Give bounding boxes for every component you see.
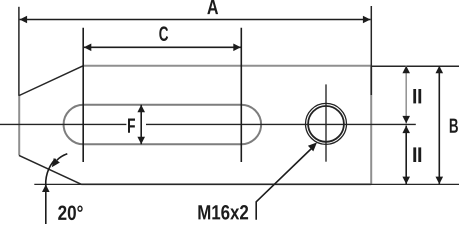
label II lower [413, 147, 416, 162]
arrowhead II lower top [402, 126, 410, 134]
angle dimension arc [46, 159, 56, 190]
dimension line 20 degree vertical arrow shaft [45, 184, 47, 224]
extension line C left [82, 28, 84, 162]
arrowhead F top [137, 105, 145, 113]
dimension line F [140, 105, 142, 144]
arrowhead II upper bottom [402, 116, 410, 124]
extension line bottom for B, II and 20 degrees [34, 183, 459, 185]
extension line A left [18, 7, 20, 96]
horizontal centerline left segment [0, 123, 126, 125]
horizontal centerline right segment [146, 123, 416, 125]
arrowhead 20 degree curved leader [52, 158, 60, 167]
arrowhead A left [20, 16, 28, 24]
dimension line II lower [405, 126, 407, 185]
label M16x2 [198, 205, 248, 220]
arrowhead C left [84, 44, 92, 52]
part outline: top edge (grey) [83, 65, 371, 67]
dimension line A [20, 19, 371, 21]
label F [128, 119, 135, 133]
part outline: bottom-left chamfer 20 degrees [19, 155, 81, 184]
label A [207, 0, 218, 14]
arrowhead B top [436, 66, 444, 74]
dimension line C [84, 46, 241, 48]
arrowhead II lower bottom [402, 177, 410, 185]
curved leader arrow tail for angle [57, 154, 68, 161]
label B [450, 119, 458, 133]
arrowhead B bottom [436, 177, 444, 185]
thread M16x2 inner circle [308, 106, 344, 142]
leader line M16x2 [256, 148, 312, 220]
slot obround (grey) [64, 105, 262, 145]
arrowhead II upper top [402, 66, 410, 74]
extension line A right [370, 6, 372, 95]
dimension line II upper (grey shaft) [405, 66, 407, 124]
dimension line B [438, 66, 440, 184]
part outline: left edge (grey) [18, 96, 20, 156]
thread M16x2 outer circle [306, 103, 347, 144]
arrowhead 20 degree vertical [42, 185, 50, 193]
extension line C right [240, 28, 242, 162]
arrowhead F bottom [137, 137, 145, 145]
arrowhead M16x2 leader [308, 142, 317, 151]
arrowhead C right [233, 44, 241, 52]
part outline: bottom edge (grey) [81, 183, 371, 185]
arrowhead A right [363, 16, 371, 24]
label C [159, 26, 168, 41]
extension line top right for B and II [371, 65, 459, 67]
part outline: top-left chamfer [19, 66, 83, 96]
label deg20 [58, 205, 82, 220]
label II upper [413, 89, 416, 103]
part outline: right edge (grey) [370, 66, 372, 185]
vertical centerline of threaded hole [325, 84, 327, 161]
